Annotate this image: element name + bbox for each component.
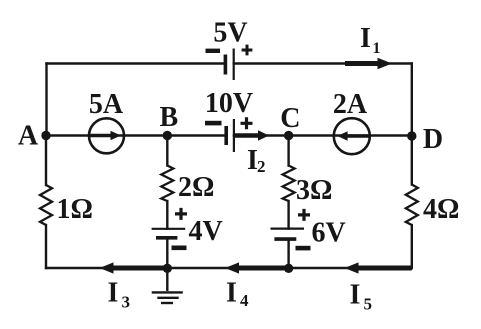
wire bottom [46,267,412,269]
battery V4 6V minus sign [296,246,311,251]
svg-text:2A: 2A [333,89,368,120]
svg-text:I: I [360,23,371,54]
wire left edge upper [45,64,47,136]
resistor R2 2-ohm [161,166,173,202]
svg-text:4: 4 [240,291,249,310]
arrow I4 [225,262,289,273]
battery V3 4V plus sign [175,208,187,220]
wire right edge [411,64,413,185]
battery V3 4V minus sign [172,246,187,251]
resistor R1 1-ohm [40,185,52,225]
wire C stub down [287,136,289,166]
current source 2A arrow [337,131,368,140]
svg-text:4Ω: 4Ω [423,194,459,225]
resistor R3 3-ohm [283,166,295,202]
wire B stub down [166,136,168,166]
current source 2A circle [334,118,370,154]
node below C [284,264,293,273]
svg-text:5A: 5A [89,89,124,120]
resistor R4 4-ohm [406,185,418,226]
svg-text:1Ω: 1Ω [57,194,93,225]
battery V2 10V plus sign [241,117,253,129]
arrow I5 [345,262,412,273]
battery V4 6V plates [271,229,305,240]
svg-text:3Ω: 3Ω [296,175,332,206]
current source 5A circle [89,118,124,153]
svg-text:D: D [423,124,443,155]
wire 2-ohm to 4V battery [166,201,168,229]
wire left edge A to 1-ohm [45,136,47,186]
svg-text:4V: 4V [189,216,223,247]
battery V2 10V minus sign [205,121,222,126]
svg-text:10V: 10V [205,88,253,119]
ground [152,268,183,303]
svg-text:I: I [108,278,119,309]
node C [284,131,293,140]
wire 6V battery to bottom node [287,240,289,268]
wire middle A to 10V battery through 5A source [46,134,226,136]
node D [407,131,416,140]
node B [163,131,172,140]
battery V4 6V plus sign [298,209,310,221]
svg-text:2Ω: 2Ω [178,172,214,203]
svg-text:5: 5 [364,295,373,314]
svg-text:5V: 5V [213,18,247,49]
wire middle 10V battery to D through 2A source [234,134,412,136]
wire left edge 1-ohm to corner [45,225,47,268]
wire right edge lower [411,225,413,268]
wire 4V battery to bottom node [166,239,168,268]
svg-text:C: C [280,103,300,134]
wire top-right segment [234,62,412,64]
svg-text:2: 2 [257,157,266,176]
svg-text:1: 1 [373,40,381,57]
battery V3 4V plates [152,229,186,238]
wire 3-ohm to 6V battery [287,201,289,229]
svg-text:B: B [159,102,178,133]
svg-text:3: 3 [122,293,131,312]
battery V1 5V plus sign [242,45,253,56]
arrow I1 [345,58,392,70]
svg-text:I: I [226,278,237,309]
wire top-left segment [47,62,226,64]
svg-text:6V: 6V [312,218,346,249]
node below B [163,264,172,273]
current source 5A arrow [90,131,121,140]
svg-text:I: I [350,280,361,311]
battery V1 5V plates [225,49,233,81]
node A [41,131,50,140]
svg-text:A: A [18,121,39,152]
arrow I3 [100,262,168,273]
battery V1 5V minus sign [206,49,221,53]
battery V2 10V plates [226,119,234,152]
arrow I2 [235,130,270,140]
